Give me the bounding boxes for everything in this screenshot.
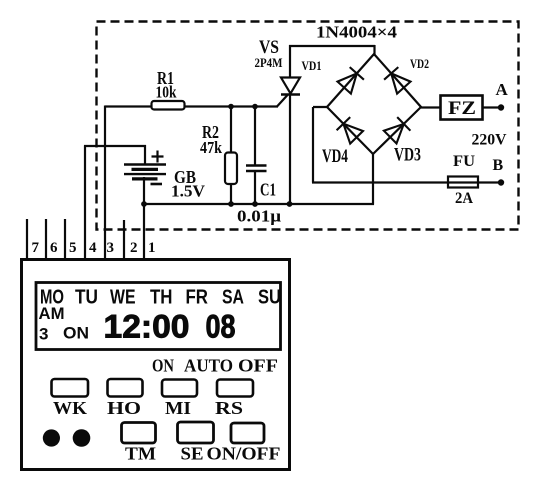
- pin 6 stub: [45, 219, 47, 258]
- svg-text:6: 6: [50, 240, 58, 256]
- wire bridge bottom corner drop: [372, 154, 374, 205]
- svg-text:RS: RS: [215, 398, 243, 418]
- button MI: [162, 380, 197, 397]
- svg-text:2: 2: [130, 240, 138, 256]
- svg-text:5: 5: [69, 240, 77, 256]
- svg-text:C1: C1: [260, 180, 276, 200]
- svg-text:4: 4: [89, 240, 97, 256]
- diode VD3: [384, 117, 411, 143]
- load FZ box: [441, 96, 483, 120]
- button HO: [108, 379, 143, 397]
- svg-text:SA: SA: [222, 287, 244, 309]
- button RS: [217, 380, 253, 397]
- svg-text:VD1: VD1: [302, 58, 322, 73]
- junction dot C1 top: [252, 104, 258, 110]
- svg-text:FR: FR: [186, 287, 209, 309]
- svg-text:ON: ON: [63, 324, 89, 343]
- terminal B dot: [498, 179, 504, 185]
- svg-text:HO: HO: [107, 398, 141, 418]
- terminal A dot: [498, 104, 504, 110]
- wire VS cathode drop: [289, 93, 291, 204]
- wire battery negative / pin1 riser: [143, 177, 145, 258]
- battery GB plates: [124, 151, 166, 185]
- svg-text:WK: WK: [53, 398, 87, 418]
- battery minus sign: [151, 183, 163, 186]
- svg-text:A: A: [496, 80, 509, 99]
- svg-text:TU: TU: [75, 287, 98, 309]
- diode VD2: [384, 67, 410, 94]
- timer outer box: [22, 260, 290, 470]
- wire bridge diamond edges: [327, 54, 421, 154]
- timer display box: [36, 283, 281, 350]
- button SE: [178, 422, 214, 443]
- svg-text:SE: SE: [181, 444, 204, 464]
- wire pin3 riser: [104, 106, 106, 259]
- wire VS gate: [277, 95, 288, 107]
- svg-text:ON/OFF: ON/OFF: [207, 444, 281, 464]
- svg-text:FZ: FZ: [448, 98, 476, 119]
- svg-text:OFF: OFF: [238, 356, 278, 376]
- svg-text:0.01μ: 0.01μ: [237, 207, 281, 226]
- button ON/OFF: [231, 423, 264, 443]
- wire pin4 riser: [84, 146, 146, 259]
- capacitor C1: [246, 166, 267, 172]
- svg-text:VD4: VD4: [322, 146, 348, 167]
- button WK: [52, 379, 89, 397]
- pin 5 stub: [64, 219, 66, 258]
- wire top rail: [105, 105, 278, 107]
- wire bridge left corner to fuse line B: [312, 107, 499, 183]
- junction dot battery bottom: [141, 201, 147, 207]
- battery plus sign: [152, 151, 164, 163]
- button TM: [122, 423, 156, 444]
- junction dot C1 bottom: [252, 201, 258, 207]
- wire C1 stem: [254, 106, 256, 204]
- junction dot R2 bottom: [228, 201, 234, 207]
- fuse FU: [448, 177, 478, 188]
- svg-text:WE: WE: [110, 287, 136, 309]
- svg-text:TM: TM: [125, 444, 156, 464]
- wire bridge right corner to FZ: [421, 106, 499, 108]
- svg-text:VD3: VD3: [394, 145, 421, 166]
- pin 2 stub: [123, 220, 125, 258]
- wire VS anode link to bridge top: [289, 45, 375, 78]
- indicator lamp left: [43, 429, 60, 446]
- svg-text:AM: AM: [39, 304, 65, 323]
- svg-text:TH: TH: [150, 287, 173, 309]
- wire battery positive drop: [144, 145, 146, 165]
- resistor R2: [225, 153, 237, 185]
- svg-text:1N4004×4: 1N4004×4: [316, 23, 398, 42]
- diode VD1: [338, 67, 364, 94]
- svg-text:2A: 2A: [455, 190, 473, 207]
- svg-text:3: 3: [107, 240, 115, 256]
- svg-text:3: 3: [39, 325, 48, 344]
- svg-text:AUTO: AUTO: [184, 356, 233, 376]
- junction dot R2 top: [228, 104, 234, 110]
- svg-text:220V: 220V: [472, 132, 507, 149]
- svg-text:MI: MI: [165, 398, 191, 418]
- junction dot VS cathode bottom: [287, 201, 293, 207]
- svg-text:10k: 10k: [156, 83, 177, 102]
- svg-text:SU: SU: [258, 287, 281, 309]
- resistor R1: [152, 101, 185, 110]
- svg-text:ON: ON: [152, 356, 174, 376]
- wire R2 stem: [230, 106, 232, 204]
- thyristor VS: [281, 78, 300, 95]
- diode VD4: [337, 117, 363, 144]
- svg-text:47k: 47k: [200, 138, 222, 157]
- indicator lamp right: [73, 429, 91, 447]
- svg-text:12:00: 12:00: [104, 309, 190, 345]
- svg-text:1: 1: [148, 240, 156, 256]
- dashed enclosure border: [97, 22, 519, 230]
- svg-text:B: B: [493, 157, 504, 174]
- svg-text:1.5V: 1.5V: [171, 182, 206, 201]
- wire bottom rail: [143, 203, 374, 205]
- svg-text:FU: FU: [453, 153, 475, 170]
- svg-text:VD2: VD2: [410, 56, 429, 71]
- pin 7 stub: [26, 219, 28, 258]
- svg-text:08: 08: [206, 309, 236, 345]
- svg-text:7: 7: [32, 240, 40, 256]
- svg-text:2P4M: 2P4M: [255, 55, 283, 70]
